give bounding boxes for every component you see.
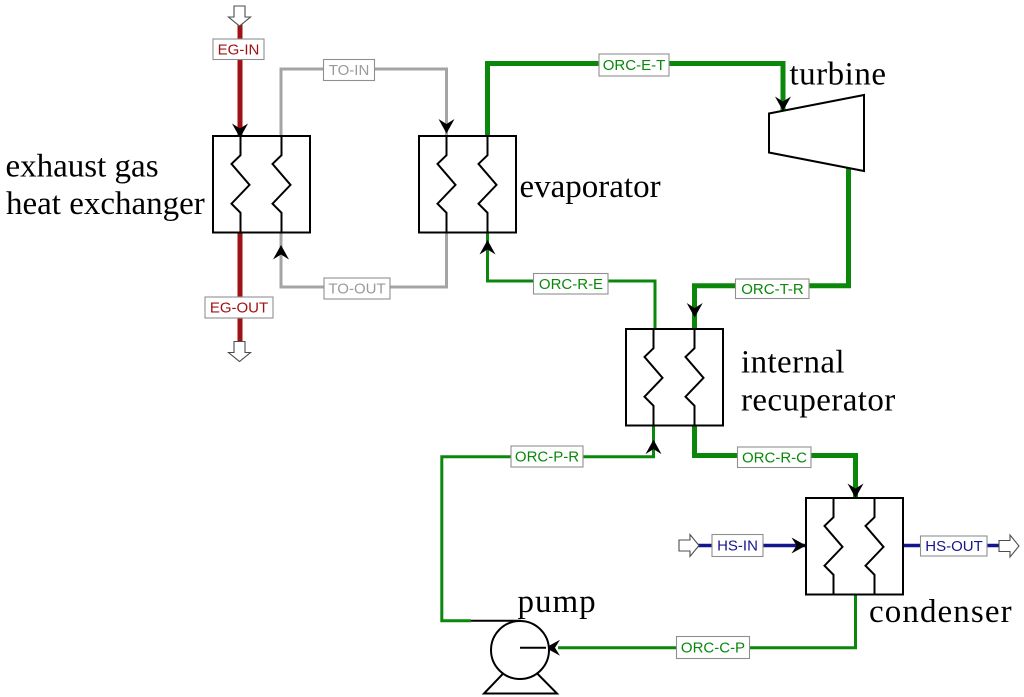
svg-text:EG-OUT: EG-OUT (210, 300, 268, 317)
label box HS-OUT (921, 536, 988, 556)
heat exchanger: condenser (806, 498, 903, 595)
arrowhead TO-IN into evaporator (439, 119, 455, 134)
label box ORC-P-R (511, 446, 583, 467)
svg-text:ORC-C-P: ORC-C-P (681, 640, 745, 657)
hollow source arrow HS inlet (679, 535, 699, 557)
svg-text:heat exchanger: heat exchanger (6, 186, 205, 222)
arrowhead into evaporator bottom (480, 240, 496, 255)
heat exchanger: internal recuperator (626, 329, 723, 426)
arrowhead into exhaust gas heat exchanger (232, 124, 248, 139)
wire TO-IN (thermal oil to evaporator) (281, 69, 447, 136)
arrowhead into condenser top (848, 484, 864, 499)
wire ORC-R-C (recuperator to condenser) (695, 426, 856, 502)
wire ORC-E-T (evaporator to turbine) (488, 64, 784, 137)
svg-text:condenser: condenser (869, 594, 1013, 630)
label box ORC-C-P (677, 637, 750, 659)
svg-text:TO-IN: TO-IN (329, 62, 370, 79)
label box EG-IN (213, 39, 264, 60)
arrowhead into internal recuperator top (687, 303, 703, 318)
label box TO-OUT (324, 278, 390, 299)
pump symbol: center suction line (520, 647, 546, 649)
wire TO-OUT (thermal oil return) (281, 233, 447, 288)
wire EG-IN segment (exhaust gas inlet) (238, 23, 243, 141)
svg-text:ORC-E-T: ORC-E-T (603, 57, 666, 74)
label box EG-OUT (205, 297, 273, 318)
wire ORC-T-R (turbine to recuperator) (695, 168, 849, 333)
svg-text:internal: internal (741, 345, 845, 381)
arrowhead into pump (546, 640, 561, 656)
turbine symbol (769, 95, 864, 171)
svg-text:EG-IN: EG-IN (218, 42, 260, 59)
arrowhead into condenser left (792, 538, 807, 554)
pump symbol: inlet tangent line (471, 620, 521, 622)
svg-text:recuperator: recuperator (741, 383, 896, 419)
arrowhead into turbine (775, 97, 791, 112)
svg-text:turbine: turbine (790, 57, 887, 93)
arrowhead TO-OUT into exhaust gas heat exchanger (273, 245, 289, 260)
svg-text:ORC-R-E: ORC-R-E (539, 276, 603, 293)
hollow source arrow EG inlet (229, 6, 251, 26)
heat exchanger: exhaust gas heat exchanger (213, 136, 310, 233)
pump symbol: base triangle (484, 656, 557, 694)
svg-text:pump: pump (518, 584, 597, 620)
svg-text:ORC-P-R: ORC-P-R (515, 449, 579, 466)
pump symbol: casing circle (491, 621, 549, 679)
label box ORC-E-T (599, 54, 669, 76)
wire ORC-C-P (condenser to pump) (558, 595, 856, 648)
label box ORC-T-R (736, 279, 810, 299)
wire HS-IN (heat sink inlet, blue) (697, 544, 806, 548)
svg-text:HS-OUT: HS-OUT (925, 538, 983, 555)
heat exchanger: evaporator (419, 136, 516, 233)
svg-text:TO-OUT: TO-OUT (328, 281, 385, 298)
component name: exhaust gas heat exchanger (6, 149, 205, 223)
svg-text:ORC-R-C: ORC-R-C (742, 450, 807, 467)
wire ORC-P-R (pump to recuperator) (442, 426, 654, 621)
component name: internal recuperator (741, 345, 896, 419)
label box ORC-R-C (738, 447, 812, 468)
wire HS-OUT (heat sink outlet, blue) (903, 544, 1000, 548)
svg-text:exhaust gas: exhaust gas (6, 149, 159, 185)
hollow sink arrow HS outlet (999, 535, 1019, 557)
svg-text:HS-IN: HS-IN (717, 538, 758, 555)
svg-text:evaporator: evaporator (520, 169, 661, 205)
arrowhead into recuperator bottom (646, 440, 662, 455)
label box ORC-R-E (534, 274, 609, 295)
svg-text:ORC-T-R: ORC-T-R (741, 281, 804, 298)
label box HS-IN (712, 535, 763, 557)
hollow sink arrow EG outlet (229, 342, 251, 362)
wire ORC-R-E (recuperator to evaporator) (488, 233, 656, 330)
wire EG-OUT segment (exhaust gas outlet) (238, 233, 243, 343)
label box TO-IN (324, 60, 375, 81)
